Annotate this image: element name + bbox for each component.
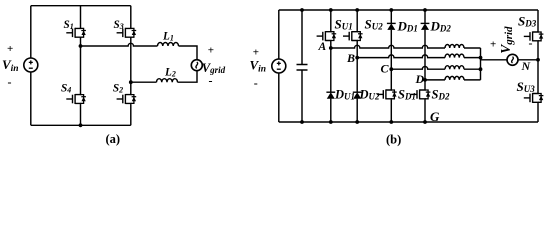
node dot N: [536, 58, 540, 62]
node dot cap top: [300, 8, 304, 12]
bottom rail: [31, 124, 131, 126]
svg-text:A: A: [318, 41, 327, 53]
wire grid to N: [518, 59, 538, 61]
svg-text:(a): (a): [106, 132, 121, 146]
diode DD1: [387, 23, 396, 30]
wire S3 drain: [130, 6, 132, 28]
wire SU2 source to node B: [356, 41, 358, 92]
wire SD3 drain: [537, 10, 539, 31]
inductor coil B: [445, 54, 464, 58]
node dot cap bottom: [300, 120, 304, 124]
capacitor C: [297, 65, 308, 71]
wire SU3 source: [537, 103, 539, 122]
node dot SD1 bottom: [389, 120, 393, 124]
wire S4 source: [80, 104, 82, 125]
wire coil B to bus: [464, 57, 481, 59]
svg-text:L1: L1: [162, 31, 174, 43]
node dot B: [355, 56, 359, 60]
node dot SD2 bottom: [423, 120, 427, 124]
svg-text:Vgrid: Vgrid: [498, 26, 515, 54]
svg-text:SU3: SU3: [517, 79, 536, 94]
svg-text:+: +: [490, 39, 496, 51]
wire line D: [425, 79, 445, 81]
node dot left leg midpoint: [79, 44, 83, 48]
svg-text:B: B: [346, 51, 355, 65]
transistor S4: [66, 94, 86, 105]
wire SD1 source: [390, 100, 392, 122]
svg-text:DD2: DD2: [430, 19, 452, 34]
diode DU2: [353, 92, 362, 99]
svg-text:Vin: Vin: [250, 58, 267, 75]
transistor S3: [117, 27, 137, 38]
svg-text:S4: S4: [61, 83, 71, 95]
ac source Vgrid: [191, 60, 202, 71]
svg-text:-: -: [254, 76, 258, 90]
wire S1 drain: [80, 6, 82, 28]
svg-text:DU1: DU1: [334, 88, 355, 102]
svg-text:-: -: [529, 36, 533, 50]
svg-text:+: +: [208, 45, 214, 57]
wire SU1 drain: [330, 10, 332, 31]
node dot right leg midpoint: [129, 80, 133, 84]
top rail b: [279, 9, 538, 11]
transistor SD2: [411, 89, 431, 100]
svg-text:-: -: [8, 75, 12, 89]
wire coil A to bus: [464, 47, 481, 49]
wire capacitor column: [301, 10, 303, 122]
wire output to grid: [481, 59, 508, 61]
transistor SD3: [524, 31, 544, 42]
svg-text:DU2: DU2: [359, 88, 381, 102]
wire SD2 source: [424, 100, 426, 122]
wire S1 source to S4 drain: [80, 38, 82, 94]
svg-text:Vgrid: Vgrid: [202, 61, 226, 75]
svg-text:SU2: SU2: [365, 16, 384, 31]
node dot A: [329, 46, 333, 50]
svg-text:-: -: [209, 74, 213, 88]
top rail: [31, 5, 131, 7]
node dot bus C: [479, 67, 483, 71]
wire coil D to bus: [464, 79, 481, 81]
wire S3 source to S2 drain: [130, 38, 132, 94]
wire coil C to bus: [464, 68, 481, 70]
node dot bus B: [479, 56, 483, 60]
svg-text:SD1: SD1: [398, 88, 416, 102]
node dot DU1 bottom: [329, 120, 333, 124]
wire DD2 top: [424, 10, 426, 23]
wire DU2 to bottom rail: [356, 99, 358, 122]
wire SD3 source to node N: [537, 42, 539, 93]
wire output bottom: [178, 71, 198, 82]
wire bridge mid to L1 with hop: [81, 43, 158, 46]
wire line B with hops: [357, 55, 445, 58]
ac source vgrid b: [507, 54, 518, 65]
inductor coil C: [445, 66, 464, 70]
transistor SD1: [377, 89, 397, 100]
transistor S2: [117, 94, 137, 105]
svg-text:Vin: Vin: [2, 57, 19, 74]
inductor coil A: [445, 44, 464, 48]
transistor SU1: [317, 31, 337, 42]
wire DD2 to node D to SD2: [424, 30, 426, 89]
inductor coil D: [445, 76, 464, 80]
svg-text:+: +: [7, 43, 13, 55]
svg-text:N: N: [521, 59, 532, 73]
wire bus: [480, 48, 482, 80]
wire line A with hops: [331, 45, 445, 48]
node dot S4 source on bottom rail: [79, 123, 83, 127]
wire line C with hop: [391, 66, 445, 69]
transistor SU2: [343, 31, 363, 42]
wire SU1 source to node A: [330, 41, 332, 92]
diode DD2: [421, 23, 430, 30]
svg-text:S1: S1: [64, 19, 74, 31]
wire DD1 to node C to SD1: [390, 30, 392, 89]
dc source Vin: [24, 58, 38, 72]
dc source Vin b: [272, 59, 286, 73]
wire SU2 drain: [356, 10, 358, 31]
node dot DU2 bottom: [355, 120, 359, 124]
bottom rail b: [279, 121, 538, 123]
svg-text:C: C: [381, 61, 390, 75]
wire DD1 top: [390, 10, 392, 23]
node dot DD2 top: [423, 8, 427, 12]
wire DU1 to bottom rail: [330, 99, 332, 122]
wire Vin column b: [278, 10, 280, 122]
node dot SU1 top: [329, 8, 333, 12]
node dot DD1 top: [389, 8, 393, 12]
transistor S1: [66, 27, 86, 38]
node dot SU2 top: [355, 8, 359, 12]
svg-text:DD1: DD1: [397, 19, 418, 34]
svg-text:SD3: SD3: [518, 14, 537, 29]
node dot D: [423, 78, 427, 82]
svg-text:G: G: [430, 109, 440, 124]
inductor L2: [157, 79, 178, 83]
svg-text:SU1: SU1: [335, 16, 353, 31]
inductor L1: [158, 42, 179, 46]
svg-text:(b): (b): [386, 133, 401, 147]
svg-text:S3: S3: [114, 19, 124, 31]
transistor SU3: [524, 93, 544, 104]
wire L1 to output: [179, 46, 198, 60]
svg-text:L2: L2: [164, 67, 176, 79]
diode DU1: [326, 92, 335, 99]
left column wire: [30, 6, 32, 126]
node dot C: [389, 67, 393, 71]
svg-text:D: D: [415, 72, 425, 86]
svg-text:S2: S2: [113, 83, 123, 95]
wire S2 source: [130, 104, 132, 125]
wire L2 to right leg midpoint: [131, 81, 157, 83]
svg-text:SD2: SD2: [432, 88, 450, 102]
